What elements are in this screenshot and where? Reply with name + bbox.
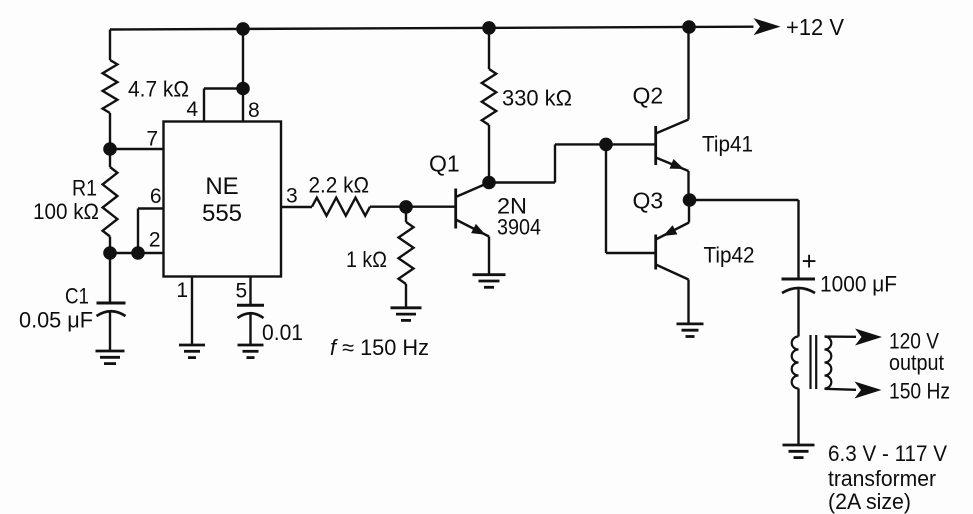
svg-text:+12 V: +12 V xyxy=(786,14,845,40)
svg-text:8: 8 xyxy=(248,99,260,122)
svg-text:6.3 V - 117 V: 6.3 V - 117 V xyxy=(828,441,947,466)
svg-text:2.2 kΩ: 2.2 kΩ xyxy=(309,173,370,198)
svg-text:5: 5 xyxy=(236,280,248,303)
svg-text:7: 7 xyxy=(146,128,158,151)
svg-text:+: + xyxy=(802,246,817,276)
svg-text:(2A size): (2A size) xyxy=(828,489,911,514)
svg-text:1 kΩ: 1 kΩ xyxy=(346,247,387,272)
svg-text:0.01: 0.01 xyxy=(262,320,303,345)
svg-text:NE: NE xyxy=(205,173,238,200)
svg-text:4: 4 xyxy=(186,98,198,121)
svg-text:3: 3 xyxy=(286,185,298,208)
svg-text:Tip41: Tip41 xyxy=(702,132,753,157)
svg-text:output: output xyxy=(889,350,944,375)
svg-text:150 Hz: 150 Hz xyxy=(889,379,950,404)
svg-text:1: 1 xyxy=(176,279,188,302)
svg-text:4.7 kΩ: 4.7 kΩ xyxy=(128,77,189,102)
svg-text:555: 555 xyxy=(202,200,242,227)
svg-text:1000 μF: 1000 μF xyxy=(820,272,897,297)
svg-text:Q1: Q1 xyxy=(429,151,460,177)
svg-text:Tip42: Tip42 xyxy=(704,243,755,268)
svg-text:f ≈ 150 Hz: f ≈ 150 Hz xyxy=(330,335,429,360)
svg-text:3904: 3904 xyxy=(497,215,541,240)
svg-text:Q3: Q3 xyxy=(633,188,664,214)
svg-text:2: 2 xyxy=(149,229,161,252)
svg-text:0.05 μF: 0.05 μF xyxy=(19,308,93,333)
svg-text:Q2: Q2 xyxy=(633,83,664,109)
svg-text:100 kΩ: 100 kΩ xyxy=(33,199,99,224)
svg-text:6: 6 xyxy=(150,185,162,208)
svg-text:C1: C1 xyxy=(65,284,89,309)
svg-text:330 kΩ: 330 kΩ xyxy=(502,86,572,111)
svg-text:transformer: transformer xyxy=(828,466,936,491)
svg-text:R1: R1 xyxy=(72,176,97,201)
